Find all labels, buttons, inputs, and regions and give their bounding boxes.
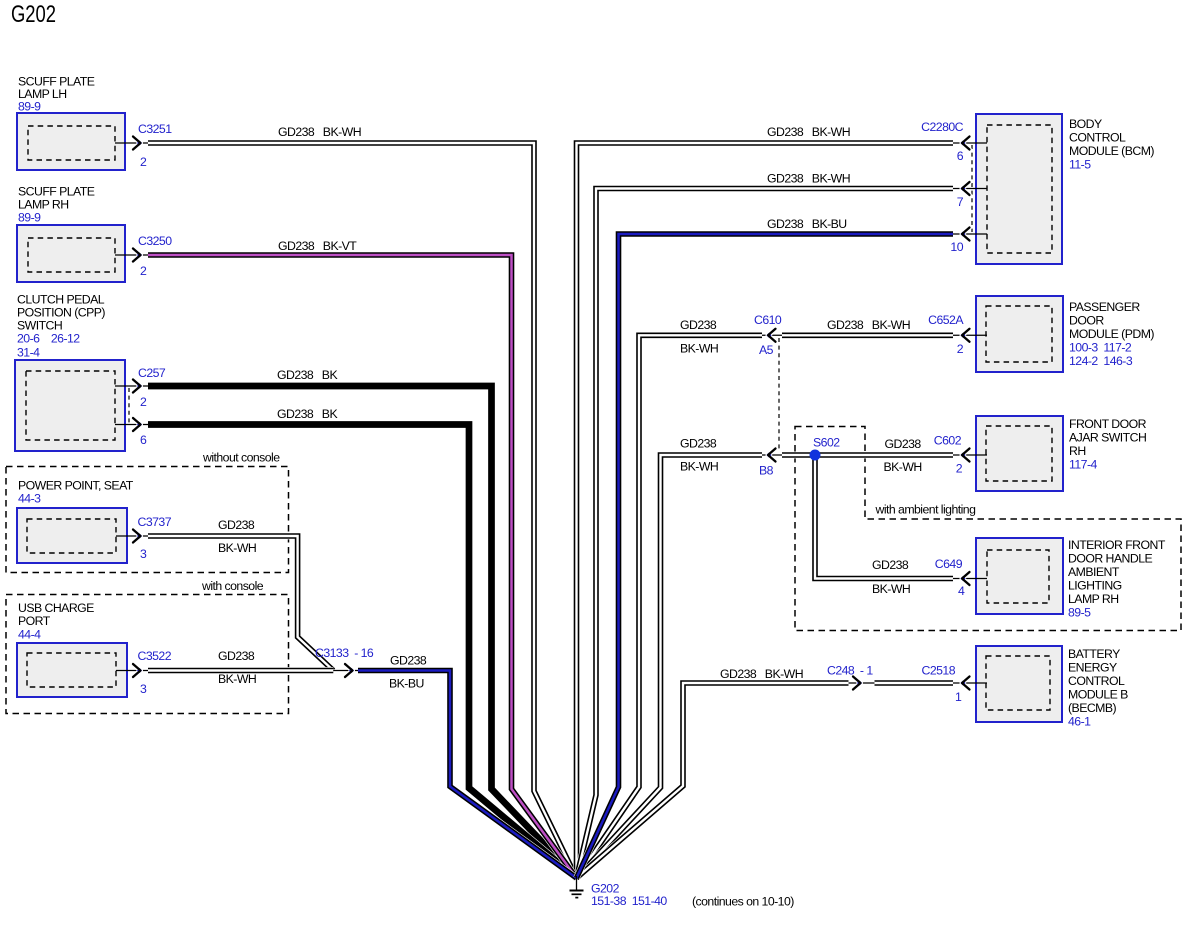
wire GD238 BK-BU from C3133 cavity 16 to G202 <box>358 671 577 879</box>
svg-text:BK-WH: BK-WH <box>218 672 256 686</box>
svg-text:C3522: C3522 <box>138 649 172 663</box>
svg-text:C602: C602 <box>934 434 962 448</box>
svg-text:DOOR HANDLE: DOOR HANDLE <box>1068 552 1152 566</box>
svg-text:89-9: 89-9 <box>18 100 41 114</box>
svg-text:89-9: 89-9 <box>18 211 41 225</box>
svg-text:GD238 BK: GD238 BK <box>277 407 338 421</box>
svg-text:GD238: GD238 <box>218 649 255 663</box>
svg-text:AMBIENT: AMBIENT <box>1068 565 1120 579</box>
wire GD238 BK-WH from BCM pin 7 to G202 <box>577 189 954 879</box>
svg-text:BK-WH: BK-WH <box>680 460 718 474</box>
svg-text:3: 3 <box>140 547 147 561</box>
svg-text:GD238: GD238 <box>872 558 909 572</box>
component box: INTERIOR FRONT DOOR HANDLE AMBIENT LIGHTING LAMP RH <box>976 538 1063 614</box>
svg-text:RH: RH <box>1069 444 1086 458</box>
svg-text:GD238 BK-WH: GD238 BK-WH <box>767 125 850 139</box>
connector C649 pin 4 arrow <box>953 572 987 585</box>
svg-text:MODULE (PDM): MODULE (PDM) <box>1069 327 1154 341</box>
svg-text:FRONT DOOR: FRONT DOOR <box>1069 417 1147 431</box>
svg-text:BK-WH: BK-WH <box>680 342 718 356</box>
svg-text:CONTROL: CONTROL <box>1069 131 1126 145</box>
svg-text:PORT: PORT <box>18 614 51 628</box>
svg-text:11-5: 11-5 <box>1069 158 1091 172</box>
svg-text:2: 2 <box>957 342 964 356</box>
connector C610 dashed cavity line <box>778 338 780 452</box>
wire GD238 BK-WH from splice S602 to ambient lighting lamp RH <box>815 455 953 579</box>
svg-text:31-4: 31-4 <box>17 346 40 360</box>
wire GD238 BK-WH from C610 cavity B8 to G202 <box>577 455 763 878</box>
svg-text:G202: G202 <box>11 1 56 28</box>
svg-text:BATTERY: BATTERY <box>1068 647 1120 661</box>
svg-text:AJAR SWITCH: AJAR SWITCH <box>1069 431 1146 445</box>
component box: CLUTCH PEDAL POSITION (CPP) SWITCH <box>15 360 125 451</box>
wire GD238 BK-WH from front door ajar switch RH through splice S602 to C610 B8 <box>782 452 953 459</box>
svg-text:GD238 BK-BU: GD238 BK-BU <box>767 217 847 231</box>
svg-text:151-38 151-40: 151-38 151-40 <box>591 894 667 908</box>
svg-text:C3737: C3737 <box>138 515 172 529</box>
svg-text:DOOR: DOOR <box>1069 314 1104 328</box>
svg-text:MODULE B: MODULE B <box>1068 688 1128 702</box>
svg-text:GD238: GD238 <box>680 437 717 451</box>
svg-text:C649: C649 <box>935 557 963 571</box>
inline connector C248 cavity 1 arrow <box>849 677 875 690</box>
wire GD238 BK from CPP switch pin 2 to G202 <box>148 386 577 878</box>
component box: POWER POINT, SEAT <box>17 508 127 563</box>
svg-text:2: 2 <box>140 264 147 278</box>
wire GD238 BK-WH from PDM pin 2 to C610 A5 <box>782 332 953 339</box>
connector C652A pin 2 arrow <box>953 329 987 342</box>
svg-text:(BECMB): (BECMB) <box>1068 701 1117 715</box>
svg-text:CLUTCH PEDAL: CLUTCH PEDAL <box>17 293 105 307</box>
svg-text:POWER POINT, SEAT: POWER POINT, SEAT <box>18 479 134 493</box>
svg-text:20-6 26-12: 20-6 26-12 <box>17 332 80 346</box>
svg-text:GD238: GD238 <box>885 437 922 451</box>
wire GD238 BK from CPP switch pin 6 to G202 <box>148 425 577 879</box>
connector C3737 pin 3 arrow <box>116 530 148 543</box>
option box: without console <box>6 467 289 573</box>
svg-text:B8: B8 <box>759 464 774 478</box>
inline connector C3133 cavity 16 arrow <box>333 664 358 677</box>
component box: USB CHARGE PORT <box>17 643 127 697</box>
svg-text:10: 10 <box>950 240 963 254</box>
svg-text:USB CHARGE: USB CHARGE <box>18 601 94 615</box>
svg-text:with console: with console <box>201 579 264 593</box>
connector C2280C pin 6 arrow <box>953 137 987 150</box>
component box: SCUFF PLATE LAMP RH <box>17 225 125 282</box>
svg-text:C3250: C3250 <box>138 234 172 248</box>
connector C2280C pin 10 arrow <box>953 228 987 241</box>
component box: PASSENGER DOOR MODULE (PDM) <box>976 296 1063 372</box>
connector C257 pin 6 arrow <box>115 418 148 431</box>
wire GD238 BK-VT from C3250 scuff plate lamp RH to G202 <box>148 255 577 878</box>
svg-text:LIGHTING: LIGHTING <box>1068 579 1122 593</box>
connector C3251 pin 2 arrow <box>115 137 148 150</box>
svg-text:GD238 BK-WH: GD238 BK-WH <box>767 172 850 186</box>
svg-text:6: 6 <box>957 149 964 163</box>
svg-text:7: 7 <box>957 195 964 209</box>
svg-text:117-4: 117-4 <box>1069 458 1097 472</box>
wire GD238 BK-WH from BCM pin 6 to G202 <box>577 143 954 878</box>
svg-text:BK-WH: BK-WH <box>884 460 922 474</box>
svg-text:C257: C257 <box>138 366 166 380</box>
svg-text:GD238: GD238 <box>390 654 427 668</box>
component box: BATTERY ENERGY CONTROL MODULE B (BECMB) <box>976 646 1062 722</box>
connector C3250 pin 2 arrow <box>115 249 148 262</box>
svg-text:INTERIOR FRONT: INTERIOR FRONT <box>1068 538 1166 552</box>
svg-text:MODULE (BCM): MODULE (BCM) <box>1069 144 1154 158</box>
svg-text:BK-WH: BK-WH <box>872 582 910 596</box>
inline connector C610 cavity A5 arrow <box>762 329 782 342</box>
svg-text:44-3: 44-3 <box>18 492 41 506</box>
svg-text:with ambient lighting: with ambient lighting <box>875 503 977 517</box>
connector C602 pin 2 arrow <box>953 449 987 462</box>
svg-text:BK-BU: BK-BU <box>389 677 424 691</box>
svg-text:POSITION (CPP): POSITION (CPP) <box>17 306 105 320</box>
option box: with console <box>6 595 289 714</box>
connector C257 pin 2 arrow <box>115 380 148 393</box>
svg-text:GD238: GD238 <box>218 518 255 532</box>
ground G202 symbol <box>570 876 584 898</box>
wire GD238 BK-WH from C3251 scuff plate lamp LH to G202 <box>148 143 577 878</box>
svg-text:124-2 146-3: 124-2 146-3 <box>1069 354 1133 368</box>
svg-text:C610: C610 <box>754 313 782 327</box>
svg-text:PASSENGER: PASSENGER <box>1069 300 1140 314</box>
svg-text:C248 - 1: C248 - 1 <box>827 664 873 678</box>
svg-text:(continues on 10-10): (continues on 10-10) <box>692 895 794 909</box>
option box: with ambient lighting <box>795 427 1181 631</box>
wire GD238 BK-WH from C248 cavity 1 to G202 <box>577 683 849 878</box>
inline connector C610 cavity B8 arrow <box>762 449 782 462</box>
svg-text:C2280C: C2280C <box>921 120 963 134</box>
svg-text:ENERGY: ENERGY <box>1068 661 1117 675</box>
component box: BODY CONTROL MODULE (BCM) <box>976 114 1062 264</box>
svg-text:CONTROL: CONTROL <box>1068 674 1125 688</box>
wire GD238 BK-WH from BECMB pin 1 to C248 <box>875 680 954 687</box>
component box: FRONT DOOR AJAR SWITCH RH <box>976 416 1063 491</box>
svg-text:GD238 BK-VT: GD238 BK-VT <box>278 239 357 253</box>
svg-text:S602: S602 <box>813 436 840 450</box>
svg-text:SCUFF PLATE: SCUFF PLATE <box>18 185 95 199</box>
svg-text:BK-WH: BK-WH <box>218 541 256 555</box>
svg-text:GD238: GD238 <box>680 318 717 332</box>
svg-text:C3133 - 16: C3133 - 16 <box>315 646 374 660</box>
svg-text:2: 2 <box>140 155 147 169</box>
wire GD238 BK-WH from C3522 USB charge port to C3133 <box>148 667 333 674</box>
svg-text:C3251: C3251 <box>138 122 172 136</box>
svg-text:C652A: C652A <box>928 313 964 327</box>
svg-text:GD238 BK-WH: GD238 BK-WH <box>827 318 910 332</box>
svg-text:GD238 BK-WH: GD238 BK-WH <box>720 667 803 681</box>
svg-text:1: 1 <box>955 690 962 704</box>
svg-text:4: 4 <box>958 584 965 598</box>
svg-text:2: 2 <box>140 395 147 409</box>
svg-text:GD238 BK: GD238 BK <box>277 368 338 382</box>
svg-text:89-5: 89-5 <box>1068 606 1091 620</box>
wire GD238 BK-WH from C610 cavity A5 to G202 <box>577 335 763 878</box>
svg-text:C2518: C2518 <box>922 664 956 678</box>
connector C2518 pin 1 arrow <box>953 677 987 690</box>
connector C3522 pin 3 arrow <box>116 664 148 677</box>
svg-text:BODY: BODY <box>1069 117 1102 131</box>
svg-text:46-1: 46-1 <box>1068 715 1091 729</box>
svg-text:GD238 BK-WH: GD238 BK-WH <box>278 125 361 139</box>
svg-text:LAMP RH: LAMP RH <box>1068 592 1119 606</box>
svg-text:44-4: 44-4 <box>18 628 41 642</box>
connector C257 dashed cavity line <box>128 388 130 423</box>
connector C2280C pin 7 arrow <box>953 182 987 195</box>
svg-text:LAMP RH: LAMP RH <box>18 198 69 212</box>
svg-text:A5: A5 <box>759 343 774 357</box>
wire GD238 BK-BU from BCM pin 10 to G202 <box>577 234 954 878</box>
svg-text:100-3 117-2: 100-3 117-2 <box>1069 341 1132 355</box>
connector C2280C dashed cavity line <box>971 145 973 232</box>
wire GD238 BK-WH from C3737 power point seat to C3133 <box>148 536 333 671</box>
svg-text:6: 6 <box>140 433 147 447</box>
svg-text:SWITCH: SWITCH <box>17 319 62 333</box>
svg-text:without console: without console <box>202 451 280 465</box>
component box: SCUFF PLATE LAMP LH <box>17 113 125 170</box>
svg-text:3: 3 <box>140 682 147 696</box>
splice S602 <box>810 450 821 461</box>
svg-text:2: 2 <box>956 462 963 476</box>
